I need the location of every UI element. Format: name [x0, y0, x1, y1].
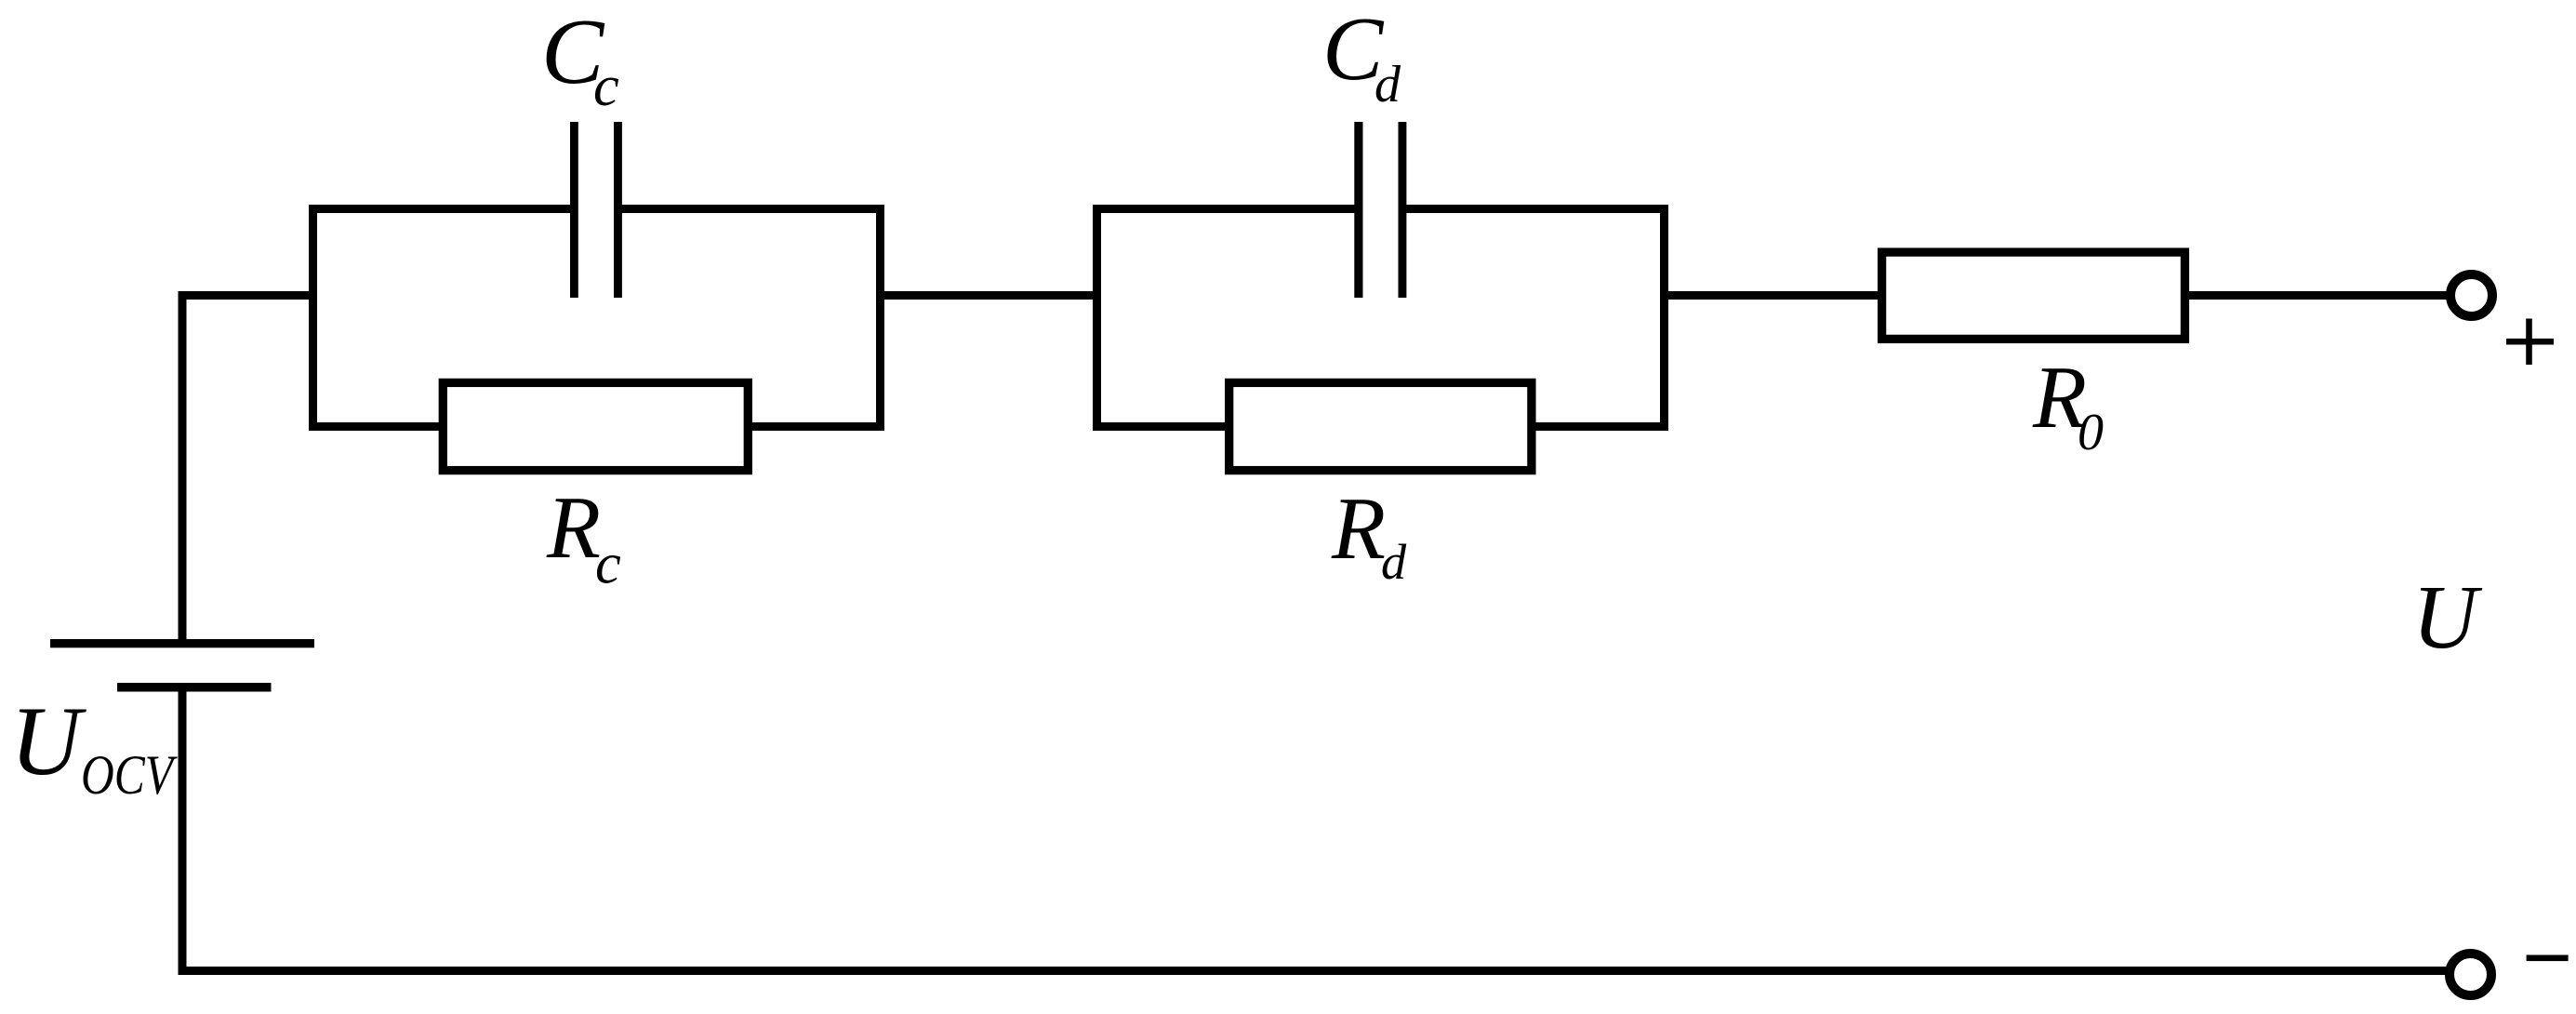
svg-text:OCV: OCV — [81, 744, 178, 806]
label R_d — [1331, 479, 1407, 590]
svg-text:U: U — [10, 687, 86, 795]
wire: RC1 top right segment — [617, 205, 884, 213]
wire: RC1 bottom right segment — [745, 422, 884, 431]
svg-text:d: d — [1374, 56, 1401, 113]
wire: RC2 top left segment — [1093, 205, 1360, 213]
battery U_OCV — [50, 639, 314, 692]
label R_c — [546, 478, 621, 596]
positive terminal — [2450, 274, 2492, 316]
svg-text:d: d — [1381, 534, 1407, 590]
wire: node A to RC1 left (input horizontal) — [179, 291, 318, 300]
wire: RC2 top right segment — [1402, 205, 1668, 213]
svg-text:c: c — [595, 531, 621, 596]
wire: RC2 bottom right segment — [1532, 422, 1668, 431]
wire: RC1 bottom left segment — [309, 422, 446, 431]
wire: RC2 bottom left segment — [1093, 422, 1229, 431]
label C_d — [1322, 0, 1401, 113]
label U_OCV — [10, 687, 178, 806]
wire: battery negative down (left vertical lower) — [179, 692, 187, 976]
resistor R_c — [443, 382, 748, 470]
svg-text:U: U — [2412, 567, 2483, 667]
wire: RC1 top left segment — [309, 205, 575, 213]
svg-text:R: R — [1331, 479, 1386, 578]
wire: R_0 to positive terminal — [2189, 291, 2447, 300]
svg-text:c: c — [593, 53, 619, 118]
svg-text:0: 0 — [2078, 404, 2104, 461]
wire: RC2 right vertical (junction) — [1660, 205, 1668, 431]
capacitor C_d — [1354, 122, 1406, 298]
wire: RC2 to R_0 — [1668, 291, 1878, 300]
wire: RC1 left vertical (junction) — [309, 205, 317, 431]
plus sign — [2506, 319, 2554, 366]
resistor R_d — [1229, 382, 1532, 470]
label R_0 — [2032, 348, 2104, 461]
wire: bottom return to negative terminal — [179, 967, 2447, 975]
wire: RC1 right vertical (junction) — [876, 205, 884, 431]
minus sign — [2527, 955, 2569, 962]
label C_c — [541, 0, 619, 118]
wire: RC2 left vertical (junction) — [1093, 205, 1101, 431]
resistor R_0 — [1882, 252, 2185, 339]
wire: battery positive to node A (left vertical upper) — [179, 291, 187, 639]
negative terminal — [2450, 954, 2491, 995]
capacitor C_c — [570, 122, 622, 298]
svg-text:R: R — [546, 478, 601, 577]
wire: RC1 to RC2 — [884, 291, 1093, 300]
